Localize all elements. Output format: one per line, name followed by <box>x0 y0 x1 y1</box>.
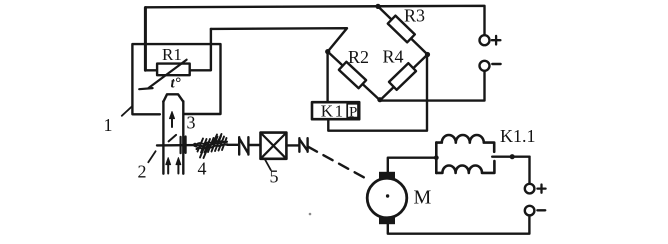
coupling symbol N2 <box>299 138 307 152</box>
air tube right wall <box>182 101 184 173</box>
motor hub dot <box>386 194 389 197</box>
terminal + of motor supply <box>525 184 535 194</box>
node: bridge bottom node <box>377 97 382 102</box>
relay P compartment <box>347 104 358 118</box>
terminal + of bridge supply <box>480 35 490 45</box>
field winding lower (K1.1 branch) <box>436 161 494 173</box>
valve actuator box (pos. 5) <box>261 133 287 159</box>
minus sign motor <box>537 209 545 211</box>
svg-text:P: P <box>349 104 357 120</box>
wire: contact to motor + terminal <box>528 157 530 184</box>
relay K1 box <box>312 102 359 119</box>
node: bridge right node <box>425 52 430 57</box>
wire: bridge bottom node to - terminal <box>380 71 485 101</box>
sensor enclosure box (pos. 1) <box>132 44 220 114</box>
svg-text:M: M <box>414 187 432 209</box>
leader for label 1 <box>122 106 133 116</box>
svg-text:R2: R2 <box>348 47 369 67</box>
terminal - of bridge supply <box>480 61 490 71</box>
damper plates on shaft <box>181 137 186 154</box>
airflow arrow inside tube <box>171 116 173 127</box>
resistor R3 body <box>388 16 415 43</box>
coupling symbol N1 <box>239 137 248 154</box>
leader for label 2 <box>148 151 155 162</box>
wire: top supply wire from R1 left lead to + terminal <box>145 6 484 71</box>
plus sign bridge <box>492 36 501 45</box>
dashed mechanical link to motor <box>308 147 369 181</box>
airflow arrow below tube left <box>167 162 169 174</box>
wire coupling to valve <box>250 144 261 146</box>
node: bridge left node <box>325 49 330 54</box>
shaft wire to heater <box>157 144 196 147</box>
tick above shaft <box>169 135 177 142</box>
resistor R4 body <box>389 63 416 90</box>
scan speck <box>309 213 312 216</box>
wire valve to coupling N2 <box>287 144 299 146</box>
node: bridge top node <box>375 4 380 9</box>
wire: motor - terminal to motor bottom <box>388 215 530 233</box>
svg-text:R3: R3 <box>404 6 425 26</box>
contact blade K1.1 <box>492 155 529 157</box>
airflow arrow below tube right <box>177 162 179 174</box>
heater winding (pos. 4) <box>196 134 227 158</box>
wire: motor top to field winding junction <box>388 158 437 172</box>
minus sign bridge <box>492 63 500 65</box>
air tube left wall <box>162 101 164 173</box>
wire: bridge arm with resistor R2 <box>328 52 380 101</box>
junction dot at winding <box>434 155 439 160</box>
svg-text:2: 2 <box>138 161 147 181</box>
wire: from R1 to bridge left node <box>211 28 347 51</box>
leader for label 5 <box>265 160 271 171</box>
air tube top <box>163 94 183 101</box>
resistor R2 body <box>339 62 366 88</box>
svg-text:K1.1: K1.1 <box>500 126 536 146</box>
wire: bridge arm with resistor R3 <box>378 6 428 54</box>
field winding upper (K1.1 branch) <box>435 143 438 173</box>
contact dot K1.1 <box>510 154 515 159</box>
svg-text:3: 3 <box>187 113 196 133</box>
plus sign motor <box>537 185 545 193</box>
motor brush bottom <box>379 217 395 224</box>
wire: relay K1 to bridge right node <box>328 55 427 131</box>
thermistor diagonal stroke of R1 <box>139 60 186 89</box>
terminal - of motor supply <box>525 206 535 216</box>
wire: R1 left lead <box>145 69 157 71</box>
motor M circle <box>367 178 407 218</box>
svg-text:5: 5 <box>270 167 279 187</box>
junction dot on shaft <box>193 143 197 147</box>
svg-text:t°: t° <box>171 76 181 92</box>
svg-text:R4: R4 <box>383 47 404 67</box>
motor brush top <box>379 172 395 179</box>
svg-text:4: 4 <box>198 158 207 178</box>
wire: bridge arm with resistor R4 <box>380 55 428 101</box>
wire: R1 right lead up to second bus <box>190 29 211 70</box>
svg-text:K1: K1 <box>321 102 345 121</box>
wire: left node down to relay K1 <box>326 52 328 102</box>
resistor R1 body <box>157 64 190 76</box>
svg-text:R1: R1 <box>162 45 182 64</box>
wire heater to coupling <box>227 144 238 146</box>
svg-text:1: 1 <box>104 115 113 135</box>
